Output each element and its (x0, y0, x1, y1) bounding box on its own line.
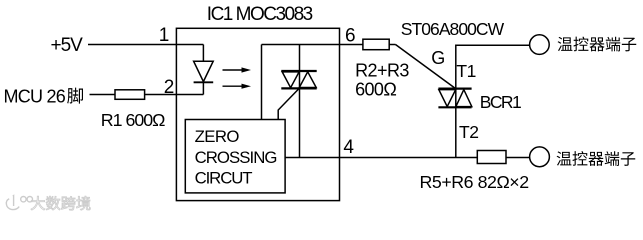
zero crossing circuit box (185, 120, 285, 193)
label thermostat terminal bottom (557, 151, 636, 166)
terminal circle top (530, 35, 550, 55)
watermark logo (6, 196, 32, 210)
wire pin6 internal node (262, 44, 364, 46)
LED cathode bar (194, 81, 214, 83)
BCR1 T2 lead down (455, 107, 457, 157)
svg-text:MCU 26: MCU 26 (4, 86, 66, 106)
svg-text:T2: T2 (459, 122, 478, 142)
wire +5V to LED anode (88, 44, 203, 46)
svg-text:CIRCUT: CIRCUT (195, 169, 253, 188)
BCR1 left triangle (439, 90, 456, 107)
opto-triac top lead (299, 45, 301, 89)
gate diagonal to BCR1 (396, 45, 455, 89)
op-to IC1 box (176, 28, 339, 200)
LED D1 triangle (194, 61, 214, 81)
arrow 1 (223, 69, 244, 70)
svg-text:ZERO: ZERO (195, 127, 240, 146)
svg-text:+5V: +5V (51, 35, 84, 56)
svg-text:600Ω: 600Ω (355, 80, 396, 100)
svg-text:6: 6 (345, 25, 356, 46)
resistor R5+R6 (477, 151, 506, 164)
resistor R1 (115, 90, 145, 100)
svg-text:1: 1 (159, 25, 170, 46)
opto-triac left triangle (282, 72, 299, 88)
opto-triac gate to zero-crossing box (278, 88, 299, 119)
BCR1 T1 lead up and wire to terminal (456, 45, 530, 107)
opto-triac bottom bar (281, 87, 316, 89)
resistor R2+R3 (363, 39, 389, 50)
LED anode lead (202, 45, 204, 62)
wire pin4 (285, 157, 477, 159)
opto-triac right triangle (299, 72, 316, 88)
svg-text:4: 4 (343, 137, 354, 158)
svg-text:2: 2 (164, 77, 175, 98)
arrow 2 (223, 86, 244, 87)
svg-text:IC1 MOC3083: IC1 MOC3083 (207, 4, 313, 25)
svg-text:R5+R6 82Ω×2: R5+R6 82Ω×2 (420, 172, 529, 192)
svg-text:G: G (431, 48, 445, 68)
LED cathode lead (202, 82, 204, 94)
watermark text da shu kua jing (31, 196, 90, 210)
wire MCU to R1 (90, 94, 116, 96)
svg-text:ST06A800CW: ST06A800CW (401, 19, 505, 39)
BCR1 right triangle (456, 90, 472, 107)
svg-text:R1 600Ω: R1 600Ω (101, 110, 165, 130)
label thermostat terminal top (558, 37, 637, 52)
svg-text:BCR1: BCR1 (480, 92, 521, 112)
svg-text:CROSSING: CROSSING (195, 148, 277, 167)
opto-triac bottom lead (299, 88, 301, 157)
BCR1 bottom bar (438, 106, 471, 108)
wire R5R6 to terminal (506, 157, 530, 159)
opto-triac top bar (281, 70, 316, 72)
wire detector left drop (261, 45, 263, 120)
terminal circle bottom (530, 147, 550, 167)
svg-text:T1: T1 (456, 61, 475, 81)
label jiao of MCU 26jiao (67, 88, 83, 104)
svg-text:R2+R3: R2+R3 (355, 60, 409, 80)
wire R1 to LED cathode (145, 94, 204, 96)
BCR1 top bar (438, 87, 471, 89)
wire R2R3 to gate diagonal start (389, 44, 395, 46)
